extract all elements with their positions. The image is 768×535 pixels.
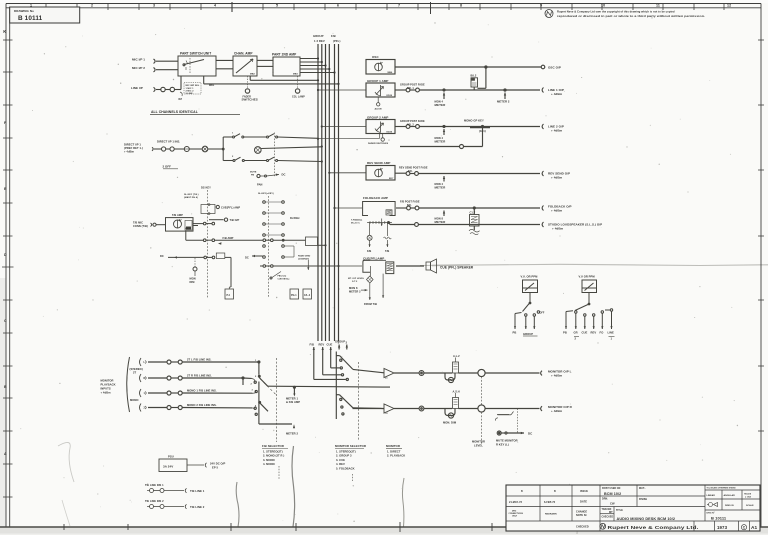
svg-text:8: 8 [460,3,462,7]
svg-text:C1.7: C1.7 [470,211,476,215]
svg-text:EP 5: EP 5 [212,466,218,470]
svg-text:LEGENDS: LEGENDS [298,259,309,261]
svg-text:METER: METER [435,140,447,144]
svg-text:CUE (PFL) SPEAKER: CUE (PFL) SPEAKER [440,266,474,270]
svg-text:TIE LINE INS 1: TIE LINE INS 1 [145,483,164,487]
svg-text:METER: METER [435,103,447,107]
svg-text:2T: 2T [133,371,137,375]
svg-text:NO. 1: NO. 1 [407,87,414,90]
svg-text:MB1: MB1 [209,84,215,87]
svg-text:OFF: OFF [540,312,545,315]
svg-text:A.L.2: A.L.2 [453,354,460,358]
svg-text:DATE: DATE [580,500,587,504]
svg-text:+ 4dBm: + 4dBm [551,92,563,96]
svg-text:B 10111: B 10111 [18,15,43,22]
svg-text:DRN.: DRN. [602,498,608,501]
svg-text:B/L2: B/L2 [471,73,477,77]
svg-text:DRAWING No: DRAWING No [14,9,34,13]
svg-text:+ 4dBm: + 4dBm [551,409,563,413]
svg-text:3: 3 [153,3,155,7]
svg-text:4. REV: 4. REV [336,462,345,466]
svg-text:reproduced or disclosed in: reproduced or disclosed in part or whole… [557,14,705,18]
svg-text:FADE GRID: FADE GRID [298,255,311,258]
svg-text:MIC I/P 1: MIC I/P 1 [132,58,145,62]
svg-text:ED20: ED20 [387,95,393,97]
svg-text:MB30: MB30 [185,228,192,230]
svg-text:2T R F/B LINE INS.: 2T R F/B LINE INS. [187,374,212,378]
svg-text:2. GROUP 3: 2. GROUP 3 [336,454,352,458]
svg-text:1. DIRECT: 1. DIRECT [387,449,401,453]
svg-text:CUE KEY(L): CUE KEY(L) [278,278,290,280]
svg-text:MAT:-: MAT:- [639,487,646,490]
svg-text:B: B [554,490,556,493]
svg-text:CHECKED: CHECKED [602,517,614,519]
svg-text:SWITCHES: SWITCHES [242,97,258,101]
svg-text:MONO 1 F/B LINE INS.: MONO 1 F/B LINE INS. [187,389,217,393]
svg-text:± 1/64: ± 1/64 [745,495,752,498]
svg-text:REV SEND AMP: REV SEND AMP [367,161,390,165]
svg-text:C/L.2: C/L.2 [304,294,311,297]
svg-text:GROUP 1 AMP: GROUP 1 AMP [367,79,389,83]
svg-text:CHAN. AMP: CHAN. AMP [234,52,253,56]
svg-text:+ 4dBm: + 4dBm [551,176,563,180]
svg-text:LINE I/P: LINE I/P [131,86,143,90]
svg-text:CUE: CUE [327,342,333,346]
svg-text:CGL LAMP: CGL LAMP [292,96,305,99]
svg-text:MT: MT [609,511,613,514]
svg-text:6: 6 [337,3,339,7]
svg-text:SL·KEY (T.B.): SL·KEY (T.B.) [184,194,199,196]
svg-text:3A 24V: 3A 24V [163,464,173,468]
svg-text:PLAYBACK: PLAYBACK [101,383,116,387]
svg-text:MONO: MONO [130,398,139,402]
svg-text:HOLES: HOLES [744,493,752,495]
svg-text:DIRECT I/P 1: DIRECT I/P 1 [124,143,141,147]
svg-text:2. PLAYBACK: 2. PLAYBACK [387,454,405,458]
svg-text:F/B AMP: F/B AMP [223,236,234,240]
svg-text:REDRAWN: REDRAWN [545,513,557,516]
svg-text:+ 4dBm: + 4dBm [551,209,563,213]
svg-text:& F/B AMP: & F/B AMP [286,400,300,404]
svg-text:MIC I/P 2: MIC I/P 2 [132,66,145,70]
svg-text:MONITOR: MONITOR [101,379,114,383]
svg-text:12: 12 [727,3,731,7]
svg-text:MONITOR SELECTOR: MONITOR SELECTOR [335,444,367,448]
svg-text:T-PAD(O)L: T-PAD(O)L [351,219,363,222]
svg-text:T/B: T/B [385,249,389,253]
svg-text:NO.: NO. [408,170,413,173]
svg-text:6·FEB 73: 6·FEB 73 [544,501,556,504]
svg-text:FINISH: FINISH [639,498,647,501]
svg-text:MON 8: MON 8 [349,286,358,290]
svg-text:5. FOLDBACK: 5. FOLDBACK [336,467,355,471]
svg-text:GROUP: GROUP [313,34,324,38]
svg-text:A1: A1 [751,525,758,531]
svg-text:GROUP 2 AMP: GROUP 2 AMP [367,115,389,119]
svg-text:NOTE Nr: NOTE Nr [576,514,587,517]
svg-text:2. MONO (2T R ): 2. MONO (2T R ) [263,454,284,458]
svg-text:3. CUE: 3. CUE [336,458,345,462]
svg-text:MONO GP KEY: MONO GP KEY [464,119,484,123]
svg-text:ED20: ED20 [387,131,393,133]
svg-text:LINEAR: LINEAR [707,494,716,497]
svg-text:FOLDBACK AMP: FOLDBACK AMP [363,196,388,200]
svg-text:(PREF RET 1.): (PREF RET 1.) [124,146,143,150]
svg-text:Rupert Neve & Company Ltd.: Rupert Neve & Company Ltd. [608,525,699,530]
svg-text:+ 4dBm: + 4dBm [551,129,563,133]
svg-text:ALL CHANNELS IDENTICAL: ALL CHANNELS IDENTICAL [151,110,198,114]
svg-text:METER 2: METER 2 [497,99,510,103]
svg-text:TIE LINE 1: TIE LINE 1 [190,489,205,493]
svg-text:CW: CW [610,502,615,506]
svg-text:2: 2 [91,3,93,7]
svg-text:B 10111: B 10111 [711,516,727,521]
svg-text:CUE(PFL) AMP: CUE(PFL) AMP [221,206,240,210]
svg-text:METER: METER [435,186,447,190]
svg-text:2T L F/B LINE INS.: 2T L F/B LINE INS. [187,358,212,362]
svg-text:1 2 REV: 1 2 REV [314,39,325,43]
svg-text:PART 2ND AMP: PART 2ND AMP [272,53,297,57]
svg-text:B: B [4,385,7,389]
svg-text:FO: FO [600,331,604,335]
svg-text:10: 10 [601,3,605,7]
svg-text:MONITOR: MONITOR [472,440,485,444]
svg-text:(MAST DN 4): (MAST DN 4) [184,196,198,199]
svg-text:+ 4dBm: + 4dBm [124,150,135,154]
svg-text:FADER SWITCHES: FADER SWITCHES [368,142,389,145]
svg-text:BCM 10/2: BCM 10/2 [604,492,621,496]
svg-text:5: 5 [276,3,278,7]
svg-text:R KEY (L): R KEY (L) [496,443,509,447]
svg-text:MONITOR: MONITOR [386,444,401,448]
svg-text:MON. DIM: MON. DIM [443,421,457,425]
svg-text:REV: REV [591,331,597,335]
svg-text:PART SWITCH UNIT: PART SWITCH UNIT [180,52,211,56]
svg-text:3. MONO: 3. MONO [263,458,275,462]
svg-text:ED7: ED7 [389,178,394,180]
svg-text:TIE LINE 2: TIE LINE 2 [190,505,205,509]
svg-text:D: D [4,253,7,257]
svg-text:SL.KEY(+KEY): SL.KEY(+KEY) [258,193,274,195]
svg-text:A: A [4,452,7,456]
svg-text:REV SEND POST FADE: REV SEND POST FADE [399,167,428,170]
svg-text:(1L1): (1L1) [479,129,486,133]
svg-text:CONN (T/B): CONN (T/B) [133,224,148,228]
svg-text:2 OFF: 2 OFF [163,165,172,169]
svg-text:S.T.2: S.T.2 [352,281,358,283]
svg-text:DC: DC [245,255,249,259]
svg-text:GR: GR [574,331,578,335]
svg-text:MT. O/P LEVEL: MT. O/P LEVEL [348,278,365,280]
svg-text:GROUP: GROUP [523,332,533,336]
svg-text:1. STEREO(2T): 1. STEREO(2T) [263,449,283,453]
svg-text:DIM: DIM [190,280,195,284]
svg-text:PB12 (C): PB12 (C) [278,276,287,278]
svg-text:C: C [4,319,7,323]
svg-text:7: 7 [398,3,400,7]
svg-text:9: 9 [540,3,542,7]
svg-text:T/B MIC: T/B MIC [133,220,143,224]
svg-text:Rupert Neve & Company Ltd own: Rupert Neve & Company Ltd own the copyri… [557,10,675,14]
svg-text:PSU: PSU [168,455,174,459]
svg-text:OSC O/P: OSC O/P [548,65,561,69]
svg-text:(STEREO): (STEREO) [130,367,143,371]
svg-text:T/B AMP: T/B AMP [172,213,183,217]
svg-text:OSC: OSC [372,55,379,59]
svg-text:F/B SELECTOR: F/B SELECTOR [262,444,285,448]
svg-text:A.S.H: A.S.H [453,389,460,393]
svg-text:MONO 2 F/B LINE INS.: MONO 2 F/B LINE INS. [187,403,217,407]
svg-text:ALIGN: ALIGN [375,108,382,111]
svg-text:DC: DC [160,254,164,258]
svg-text:MUTE MONITOR: MUTE MONITOR [496,439,518,443]
svg-text:NO. 2: NO. 2 [407,123,414,126]
svg-text:CUE: CUE [582,331,588,335]
svg-text:AUDIO MIXING DESK BCM 1: AUDIO MIXING DESK BCM 10/2 [617,517,676,521]
svg-text:INPUTS: INPUTS [101,387,111,391]
svg-text:4. MONO: 4. MONO [263,462,275,466]
svg-text:DRG Nº: DRG Nº [707,512,715,515]
svg-text:CUE(PFL)AMP: CUE(PFL)AMP [363,257,384,261]
svg-text:DIMS IN: DIMS IN [725,505,734,507]
svg-text:ANGULAR: ANGULAR [724,494,736,497]
svg-text:PAN: PAN [257,183,263,187]
svg-text:+ 4dBm: + 4dBm [101,391,112,395]
svg-text:B: B [521,490,523,493]
svg-text:(PFL): (PFL) [333,39,340,43]
svg-text:+ 4dBm: + 4dBm [551,374,563,378]
svg-text:SCALE: SCALE [746,504,754,507]
svg-text:LINE: LINE [608,331,614,335]
svg-text:T/B O/P: T/B O/P [230,218,240,222]
svg-text:DS KEY: DS KEY [201,186,211,190]
svg-text:3 LINE: 3 LINE [186,93,194,95]
svg-text:K: K [3,29,6,34]
svg-text:METER 1: METER 1 [286,397,298,401]
svg-text:F/B: F/B [310,342,315,346]
svg-text:MB3: MB3 [293,74,298,76]
svg-text:PB: PB [513,331,517,335]
svg-text:TIE LINE INS 2: TIE LINE INS 2 [145,499,164,503]
svg-text:PB: PB [563,331,567,335]
svg-text:21·MAY·73: 21·MAY·73 [509,501,523,504]
svg-text:REV: REV [319,342,325,346]
svg-text:METER 2: METER 2 [286,432,298,436]
svg-text:METER 2: METER 2 [349,290,361,294]
svg-text:4: 4 [214,3,216,7]
svg-text:M-L10 C: M-L10 C [351,222,360,224]
svg-text:1973: 1973 [717,525,728,530]
svg-text:NO.: NO. [407,204,412,207]
svg-text:CHECKED: CHECKED [576,526,589,529]
svg-text:ONLY: ONLY [512,516,518,518]
svg-text:11: 11 [656,3,660,7]
svg-text:MB2: MB2 [250,74,255,76]
svg-text:FIRST USED ON: FIRST USED ON [602,488,621,490]
svg-text:LEVEL: LEVEL [474,444,483,448]
svg-text:MUTE: MUTE [250,172,257,174]
svg-text:MB6: MB6 [388,72,393,74]
svg-text:R: R [144,377,146,380]
svg-text:METER: METER [435,220,447,224]
svg-text:F/B: F/B [367,249,371,253]
svg-text:DC: DC [282,172,286,176]
svg-text:1. STEREO(2T): 1. STEREO(2T) [336,449,356,453]
svg-text:FROM T/B: FROM T/B [364,302,377,306]
svg-text:V.U OR PPM: V.U OR PPM [579,275,596,279]
svg-text:+ 4dBm: + 4dBm [552,227,564,231]
svg-text:F/B: F/B [331,34,336,38]
svg-text:V.U. OR PPM: V.U. OR PPM [521,275,539,279]
svg-text:24V DC O/P: 24V DC O/P [210,462,225,466]
svg-text:PG.1: PG.1 [291,294,297,297]
svg-text:ISSUE: ISSUE [580,489,588,493]
svg-text:TOL UNLESS OTHERWISE STATED: TOL UNLESS OTHERWISE STATED [707,487,737,490]
svg-text:GROUP: GROUP [335,340,345,344]
svg-text:DL/RGH: DL/RGH [290,217,300,220]
svg-text:PB: PB [251,175,255,177]
svg-text:RZ: RZ [179,97,183,101]
svg-text:TITLE: TITLE [616,509,623,512]
svg-text:DIRECT I/P 1 INS.: DIRECT I/P 1 INS. [157,139,180,143]
